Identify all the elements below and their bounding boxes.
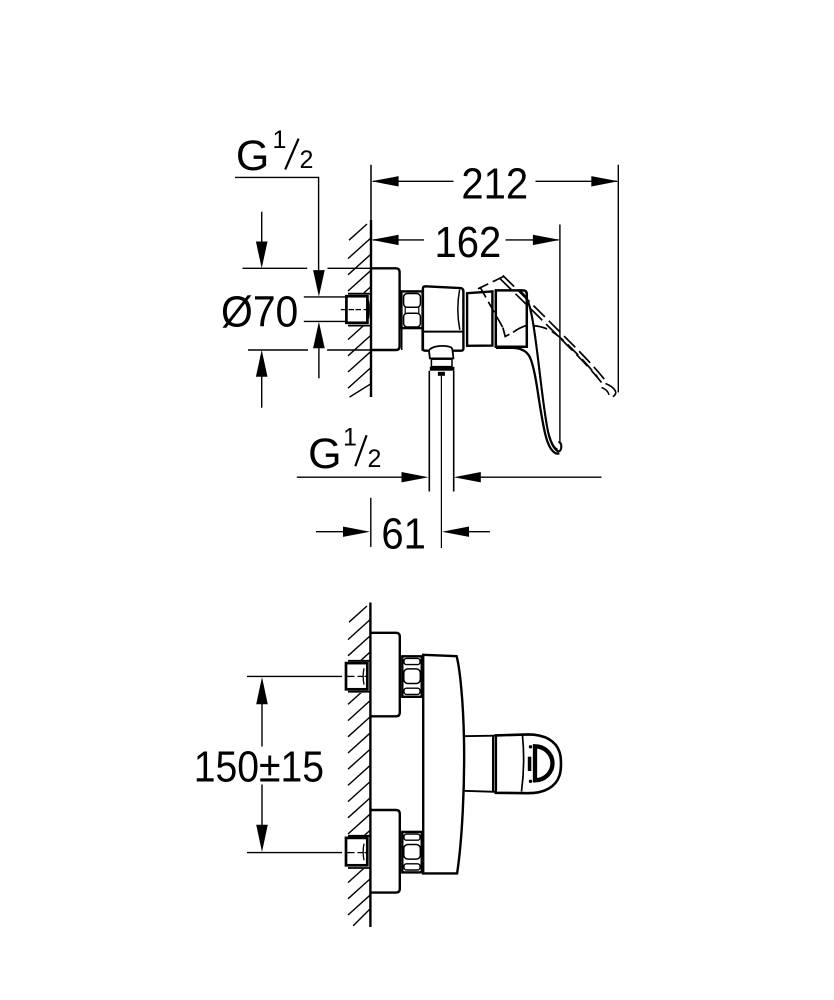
svg-text:G: G <box>236 132 269 180</box>
svg-text:162: 162 <box>435 217 502 266</box>
svg-text:1: 1 <box>273 126 287 154</box>
svg-text:Ø70: Ø70 <box>221 288 298 337</box>
svg-text:G: G <box>308 430 341 478</box>
svg-text:212: 212 <box>461 159 528 208</box>
svg-text:150±15: 150±15 <box>194 741 324 791</box>
svg-text:1: 1 <box>343 424 357 452</box>
svg-text:2: 2 <box>300 146 314 174</box>
svg-text:61: 61 <box>381 509 426 558</box>
svg-text:2: 2 <box>368 445 382 473</box>
